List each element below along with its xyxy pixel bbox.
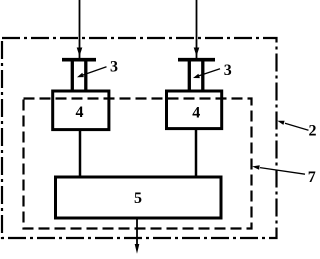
svg-text:3: 3 [110,59,118,76]
svg-text:3: 3 [224,62,232,79]
svg-text:4: 4 [192,105,200,122]
svg-text:2: 2 [309,123,317,140]
svg-text:7: 7 [308,169,316,186]
svg-text:4: 4 [76,104,84,121]
svg-text:5: 5 [134,190,142,207]
